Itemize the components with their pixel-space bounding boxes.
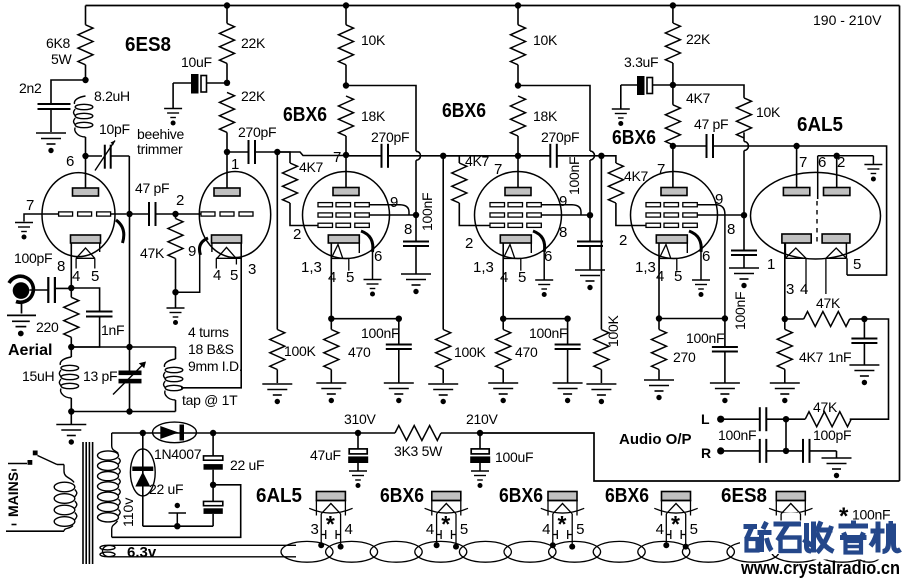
ground: aerial xyxy=(7,315,36,336)
capacitor 100nF cathode xyxy=(529,319,581,383)
wire: cathode bus xyxy=(503,318,567,320)
ground: 47K/pin9 xyxy=(167,292,185,325)
ground: 47uF xyxy=(349,471,367,488)
node: 6AL5 pin 7 xyxy=(793,143,799,149)
svg-text:8: 8 xyxy=(727,221,735,238)
capacitor 100nF cathode xyxy=(361,319,412,383)
node: V2 anode/pin7 xyxy=(343,152,349,158)
capacitor 2n2 xyxy=(19,80,86,132)
svg-text:4: 4 xyxy=(656,268,664,285)
wire: PSU rail top xyxy=(112,432,143,434)
node: 100nF cathode xyxy=(564,316,570,322)
heater unit 6BX6 c xyxy=(605,485,698,550)
svg-text:5: 5 xyxy=(853,256,861,273)
capacitor 100nF (L) xyxy=(718,407,786,443)
wire: B+ top rail xyxy=(86,5,900,7)
wire: B+ bottom run xyxy=(480,433,900,481)
svg-text:5: 5 xyxy=(460,521,468,538)
svg-text:4: 4 xyxy=(800,281,808,298)
heater unit 6BX6 a xyxy=(380,485,468,550)
svg-text:6.3v: 6.3v xyxy=(127,544,157,561)
capacitor 22uF upper xyxy=(204,433,265,485)
wire: B+ right edge down xyxy=(899,6,901,482)
svg-text:8: 8 xyxy=(404,221,412,238)
svg-text:100nF: 100nF xyxy=(718,427,756,443)
svg-text:6AL5: 6AL5 xyxy=(256,485,302,507)
svg-text:470: 470 xyxy=(515,344,538,360)
resistor 47K lower xyxy=(786,399,851,427)
svg-text:6: 6 xyxy=(544,248,552,265)
svg-text:4: 4 xyxy=(345,521,353,538)
svg-text:100nF: 100nF xyxy=(852,507,890,523)
svg-text:6ES8: 6ES8 xyxy=(125,34,171,56)
svg-text:9: 9 xyxy=(715,191,723,208)
svg-text:1N4007: 1N4007 xyxy=(154,446,202,462)
svg-text:1: 1 xyxy=(231,156,239,173)
svg-text:210V: 210V xyxy=(466,411,498,427)
svg-text:trimmer: trimmer xyxy=(137,141,183,157)
terminal R xyxy=(701,445,724,461)
svg-text:10pF: 10pF xyxy=(99,121,130,137)
resistor 4K7 anode xyxy=(665,85,710,146)
wire: V2 cathode lead xyxy=(330,243,332,319)
ground: screen cap xyxy=(401,274,431,294)
svg-text:4: 4 xyxy=(328,269,336,286)
svg-text:3: 3 xyxy=(786,281,794,298)
wire: V3 node run xyxy=(443,155,550,157)
svg-text:5: 5 xyxy=(690,521,698,538)
capacitor 100nF screen xyxy=(403,193,435,274)
ground: pin 6 xyxy=(692,280,710,297)
resistor 4K7 grid stopper xyxy=(277,152,323,226)
node: V1a cathode junction xyxy=(68,285,74,291)
node: rail / 10K xyxy=(515,2,521,8)
resistor 22K (V1b anode load upper) xyxy=(220,6,266,83)
capacitor 10uF xyxy=(173,54,227,108)
resistor 100K grid leak xyxy=(594,156,621,383)
resistor 470 cathode xyxy=(324,319,371,383)
svg-text:3.3uF: 3.3uF xyxy=(624,54,658,70)
svg-text:270: 270 xyxy=(673,349,696,365)
node: 10K/18K junction xyxy=(515,82,521,88)
svg-text:47K: 47K xyxy=(140,245,165,261)
resistor 10K xyxy=(511,6,558,86)
node: 22uF top xyxy=(210,430,216,436)
label: MAINS xyxy=(5,470,21,525)
svg-text:100uF: 100uF xyxy=(495,449,533,465)
node: V1b anode xyxy=(224,149,230,155)
wire: screen feed with hop xyxy=(346,86,421,216)
node: D2 top xyxy=(140,430,146,436)
capacitor 100nF (R) xyxy=(721,439,786,463)
svg-text:13 pF: 13 pF xyxy=(83,368,117,384)
svg-text:4: 4 xyxy=(213,267,221,284)
svg-text:L: L xyxy=(701,411,710,427)
ground: 100nF cathode xyxy=(553,383,583,403)
resistor 100K grid leak xyxy=(436,156,487,383)
node: V1b grid xyxy=(172,211,178,217)
wire: 6AL5 pin1 lead xyxy=(784,243,786,319)
svg-text:4K7: 4K7 xyxy=(686,90,711,106)
ground: 470 xyxy=(488,383,518,403)
svg-text:4K7: 4K7 xyxy=(624,168,649,184)
svg-text:100K: 100K xyxy=(454,344,486,360)
resistor 47K upper xyxy=(785,295,865,327)
svg-text:100pF: 100pF xyxy=(14,250,52,266)
ground: 100nF cathode xyxy=(710,383,740,403)
svg-text:4K7: 4K7 xyxy=(799,349,824,365)
svg-text:7: 7 xyxy=(657,161,665,178)
switch: mains xyxy=(8,451,64,465)
wire: screen feed with hop xyxy=(518,86,595,216)
node: cathode junction xyxy=(500,316,506,322)
ground: screen cap xyxy=(575,270,605,290)
ground: 10uF xyxy=(164,109,182,126)
resistor 18K xyxy=(339,96,386,155)
svg-text:100nF: 100nF xyxy=(529,325,567,341)
capacitor 270pF (stage 2 coupling) xyxy=(346,129,443,168)
node: L coupling xyxy=(783,416,789,422)
svg-text:270pF: 270pF xyxy=(371,129,409,145)
node: 210V xyxy=(477,430,483,436)
svg-text:8.2uH: 8.2uH xyxy=(94,88,130,104)
svg-text:470: 470 xyxy=(348,344,371,360)
resistor 10K screen xyxy=(737,98,781,138)
svg-text:6: 6 xyxy=(374,248,382,265)
node: screen pin8/9 xyxy=(587,212,593,218)
wire: pin 9 to ground xyxy=(176,253,200,292)
svg-text:6: 6 xyxy=(66,153,74,170)
svg-text:10K: 10K xyxy=(756,104,781,120)
svg-text:3: 3 xyxy=(248,261,256,278)
svg-text:18 B&S: 18 B&S xyxy=(188,341,234,357)
ground: 6AL5 pins 6,2 xyxy=(864,165,882,182)
svg-text:47K: 47K xyxy=(813,399,838,415)
tube V2 6BX6 xyxy=(293,149,416,286)
capacitor 270pF (stage 1 coupling) xyxy=(227,124,277,164)
wire: tank bottom bus xyxy=(71,411,175,413)
wire: V4 cathode lead xyxy=(658,243,660,319)
svg-text:6K8: 6K8 xyxy=(46,35,71,51)
svg-text:4: 4 xyxy=(500,269,508,286)
ground: 100nF cathode xyxy=(384,383,414,403)
resistor 4K7 grid stopper xyxy=(601,156,648,226)
capacitor 100pF xyxy=(786,427,851,463)
node: V3 anode/pin7 xyxy=(515,153,521,159)
node: 47K/1nF junction xyxy=(861,316,867,322)
tube V3 6BX6 xyxy=(465,156,590,286)
svg-text:100nF: 100nF xyxy=(686,330,724,346)
ground: 3.3uF xyxy=(612,109,630,126)
svg-text:100nF: 100nF xyxy=(419,193,435,231)
svg-text:2: 2 xyxy=(619,232,627,249)
svg-text:270pF: 270pF xyxy=(541,129,579,145)
wire: secondary bottom loop xyxy=(112,485,241,538)
resistor 220 xyxy=(36,288,79,347)
svg-text:7: 7 xyxy=(333,149,341,166)
svg-text:6ES8: 6ES8 xyxy=(721,485,767,507)
heater unit 6BX6 b xyxy=(499,485,584,550)
connector: Aerial xyxy=(8,276,52,359)
svg-text:www.crystalradio.cn: www.crystalradio.cn xyxy=(740,558,900,578)
svg-text:6BX6: 6BX6 xyxy=(612,127,656,149)
wire: pin6 to ground xyxy=(372,252,374,279)
tube V5 6AL5 xyxy=(751,146,881,298)
svg-text:22K: 22K xyxy=(686,31,711,47)
transformer secondary 110v xyxy=(98,433,121,537)
capacitor 3.3uF xyxy=(621,54,673,109)
svg-text:15uH: 15uH xyxy=(22,368,54,384)
capacitor 100pF aerial xyxy=(14,250,71,303)
svg-text:R: R xyxy=(701,445,711,461)
svg-text:6BX6: 6BX6 xyxy=(442,100,486,122)
svg-text:8: 8 xyxy=(57,258,65,275)
node: 13pF bottom xyxy=(126,408,132,414)
capacitor 1nF xyxy=(828,319,877,365)
node: rail / 22K xyxy=(224,2,230,8)
wire: twisted heater pair xyxy=(281,541,883,562)
heater unit 6AL5 xyxy=(256,485,353,550)
svg-text:6AL5: 6AL5 xyxy=(797,114,843,136)
svg-text:220: 220 xyxy=(36,319,59,335)
ground: pin 7 xyxy=(15,223,33,240)
capacitor 47pF xyxy=(130,180,176,226)
svg-text:2: 2 xyxy=(176,192,184,209)
svg-text:5: 5 xyxy=(346,269,354,286)
inductor 8.2uH xyxy=(74,88,130,156)
svg-text:18K: 18K xyxy=(533,108,558,124)
svg-text:190 - 210V: 190 - 210V xyxy=(813,12,882,28)
svg-text:6: 6 xyxy=(702,248,710,265)
capacitor 47uF xyxy=(310,433,368,471)
node: 6K8/2n2/8.2uH junction xyxy=(82,77,88,83)
node: V1a grid / 47pF / tank xyxy=(126,211,132,217)
resistor 10K xyxy=(339,6,386,86)
svg-text:1,3: 1,3 xyxy=(473,259,494,276)
svg-text:5W: 5W xyxy=(51,51,72,67)
resistor 22K xyxy=(665,6,711,86)
svg-text:310V: 310V xyxy=(344,411,376,427)
svg-text:100nF: 100nF xyxy=(361,325,399,341)
ground: tank xyxy=(56,412,86,445)
wire: grid pin7 to ground xyxy=(24,214,59,222)
svg-text:3: 3 xyxy=(311,521,319,538)
svg-text:6BX6: 6BX6 xyxy=(283,104,327,126)
svg-text:beehive: beehive xyxy=(137,126,184,142)
node: anode pin6 / trimmer junction xyxy=(82,153,88,159)
capacitor 270pF (stage 3 coupling) xyxy=(541,129,601,168)
capacitor 100nF screen xyxy=(566,157,603,270)
wire: cathode bus xyxy=(659,318,725,320)
node: detector output xyxy=(782,316,788,322)
capacitor 100nF screen xyxy=(731,215,757,330)
node: R coupling xyxy=(783,448,789,454)
svg-text:1: 1 xyxy=(767,256,775,273)
svg-text:Aerial: Aerial xyxy=(8,342,52,359)
svg-text:10K: 10K xyxy=(533,32,558,48)
svg-text:47K: 47K xyxy=(816,295,841,311)
inductor 15uH xyxy=(22,347,79,412)
svg-text:7: 7 xyxy=(26,197,34,214)
wire: screen feed with hop xyxy=(673,85,749,215)
node: 22uF midpoint xyxy=(210,482,216,488)
svg-text:7: 7 xyxy=(494,161,502,178)
ground: 470 xyxy=(316,383,346,403)
node: tank bottom xyxy=(68,408,74,414)
svg-text:6BX6: 6BX6 xyxy=(605,485,649,507)
svg-text:47 pF: 47 pF xyxy=(135,180,169,196)
capacitor 100uF xyxy=(470,433,533,471)
ground: 100K xyxy=(262,384,292,404)
wire: tank top bus xyxy=(71,346,175,348)
svg-text:3K3 5W: 3K3 5W xyxy=(394,443,443,459)
wire: pin7 node to pin5 wrap xyxy=(797,146,887,275)
svg-text:100nF: 100nF xyxy=(566,157,582,195)
resistor 22K (V1b anode load lower) xyxy=(220,88,266,152)
wire: coil tap to V1b cathode xyxy=(181,243,241,388)
svg-text:270pF: 270pF xyxy=(238,124,276,140)
ground: 100pF xyxy=(822,458,852,478)
svg-text:9: 9 xyxy=(188,243,196,260)
wire: trimmer to grid node xyxy=(128,156,130,214)
wire: pin6/pin2 tie to ground xyxy=(818,153,874,164)
wire: pin6 to ground xyxy=(543,252,545,280)
resistor 4K7 xyxy=(777,319,823,383)
svg-text:9mm I.D.: 9mm I.D. xyxy=(188,358,242,374)
svg-text:5: 5 xyxy=(674,268,682,285)
node: screen pin8/9 xyxy=(413,212,419,218)
ground: 100uF xyxy=(471,471,489,488)
svg-text:4: 4 xyxy=(656,521,664,538)
svg-text:5: 5 xyxy=(91,268,99,285)
tube V1b 6ES8 triode xyxy=(176,152,271,284)
capacitor 47pF xyxy=(673,116,797,158)
svg-text:2: 2 xyxy=(293,226,301,243)
wire: D2 bottom run xyxy=(143,525,213,527)
svg-text:1,3: 1,3 xyxy=(635,259,656,276)
svg-text:47uF: 47uF xyxy=(310,447,341,463)
transformer 6.3v winding xyxy=(100,545,115,556)
wire: V3 cathode lead xyxy=(502,243,504,319)
resistor 18K xyxy=(511,96,558,156)
svg-text:4 turns: 4 turns xyxy=(188,324,229,340)
svg-text:10uF: 10uF xyxy=(181,54,212,70)
node: 310V xyxy=(355,430,361,436)
node: screen pin8 xyxy=(741,212,747,218)
watermark logo backing xyxy=(740,521,903,555)
svg-text:100K: 100K xyxy=(605,315,621,347)
diode D1 1N4007 xyxy=(143,422,358,462)
node: V4 grid junction xyxy=(598,153,604,159)
ground: pin 6 xyxy=(364,280,382,297)
svg-text:22 uF: 22 uF xyxy=(230,457,264,473)
ground: 100K xyxy=(586,384,616,404)
wire: cathode pin8 lead xyxy=(70,243,72,288)
svg-text:5: 5 xyxy=(230,267,238,284)
terminal L xyxy=(701,411,724,427)
svg-text:7: 7 xyxy=(799,154,807,171)
svg-text:9: 9 xyxy=(390,194,398,211)
ground: 270 xyxy=(644,380,674,400)
node: V4 anode xyxy=(670,143,676,149)
resistor 47K grid xyxy=(140,214,183,292)
wire: pin6 to ground xyxy=(700,252,702,280)
node: rail / 10K xyxy=(343,2,349,8)
capacitor 1nF xyxy=(71,288,124,347)
svg-text:4: 4 xyxy=(72,268,80,285)
node: 0V reference xyxy=(169,503,187,530)
svg-text:100nF: 100nF xyxy=(732,292,748,330)
node: cathode junction xyxy=(656,315,662,321)
svg-text:18K: 18K xyxy=(361,108,386,124)
svg-text:2n2: 2n2 xyxy=(19,80,42,96)
ground: screen cap xyxy=(729,268,759,288)
svg-text:8: 8 xyxy=(559,224,567,241)
wire: 6.3v cable xyxy=(103,545,297,557)
wire: to lower 47K xyxy=(850,319,889,419)
wire: grid node run xyxy=(277,152,346,156)
wire: cathode bus xyxy=(331,318,399,320)
svg-text:100K: 100K xyxy=(284,343,316,359)
svg-text:10K: 10K xyxy=(361,32,386,48)
svg-text:4: 4 xyxy=(542,521,550,538)
svg-text:22K: 22K xyxy=(241,35,266,51)
svg-text:2: 2 xyxy=(465,235,473,252)
resistor 100K grid leak xyxy=(270,152,317,383)
wire: mains bottom xyxy=(6,530,64,532)
ground: pin 6 xyxy=(535,280,553,297)
svg-text:tap @ 1T: tap @ 1T xyxy=(182,392,238,408)
svg-text:6BX6: 6BX6 xyxy=(380,485,424,507)
resistor 4K7 grid stopper xyxy=(443,153,490,226)
svg-text:4K7: 4K7 xyxy=(299,159,324,175)
svg-text:Audio O/P: Audio O/P xyxy=(619,431,692,448)
ground: 4K7 xyxy=(770,383,800,403)
svg-text:47 pF: 47 pF xyxy=(694,116,728,132)
node: 100nF cathode xyxy=(722,315,728,321)
node: 10K/18K junction xyxy=(343,82,349,88)
svg-text:1nF: 1nF xyxy=(101,322,124,338)
svg-text:100pF: 100pF xyxy=(813,427,851,443)
capacitor 10pF beehive trimmer xyxy=(86,121,185,171)
svg-text:4: 4 xyxy=(426,521,434,538)
inductor L2 4 turns xyxy=(164,324,243,412)
transformer primary xyxy=(54,465,77,532)
tube V1a 6ES8 triode xyxy=(26,153,126,285)
tube V4 6BX6 xyxy=(619,146,744,319)
svg-text:22 uF: 22 uF xyxy=(149,481,183,497)
node: rail / 22K xyxy=(670,2,676,8)
node: 47K / pin9 xyxy=(172,289,178,295)
resistor 270 cathode xyxy=(652,319,696,380)
node: 13pF top xyxy=(126,344,132,350)
node: 22K junction xyxy=(224,80,230,86)
node: V2 grid junction xyxy=(274,149,280,155)
heater unit 6ES8 xyxy=(721,485,813,550)
resistor 3K3 5W xyxy=(358,426,480,460)
svg-text:5: 5 xyxy=(576,521,584,538)
ground: 100K xyxy=(428,384,458,404)
ground: 2n2 xyxy=(36,133,66,153)
watermark logo glyphs xyxy=(744,521,901,553)
resistor 6K8 5W xyxy=(46,6,93,81)
svg-text:22K: 22K xyxy=(241,88,266,104)
node: tank top xyxy=(68,344,74,350)
node: 22K/3.3uF junction xyxy=(670,82,676,88)
svg-text:110v: 110v xyxy=(120,498,136,527)
svg-text:5: 5 xyxy=(518,269,526,286)
resistor 470 cathode xyxy=(496,319,538,383)
